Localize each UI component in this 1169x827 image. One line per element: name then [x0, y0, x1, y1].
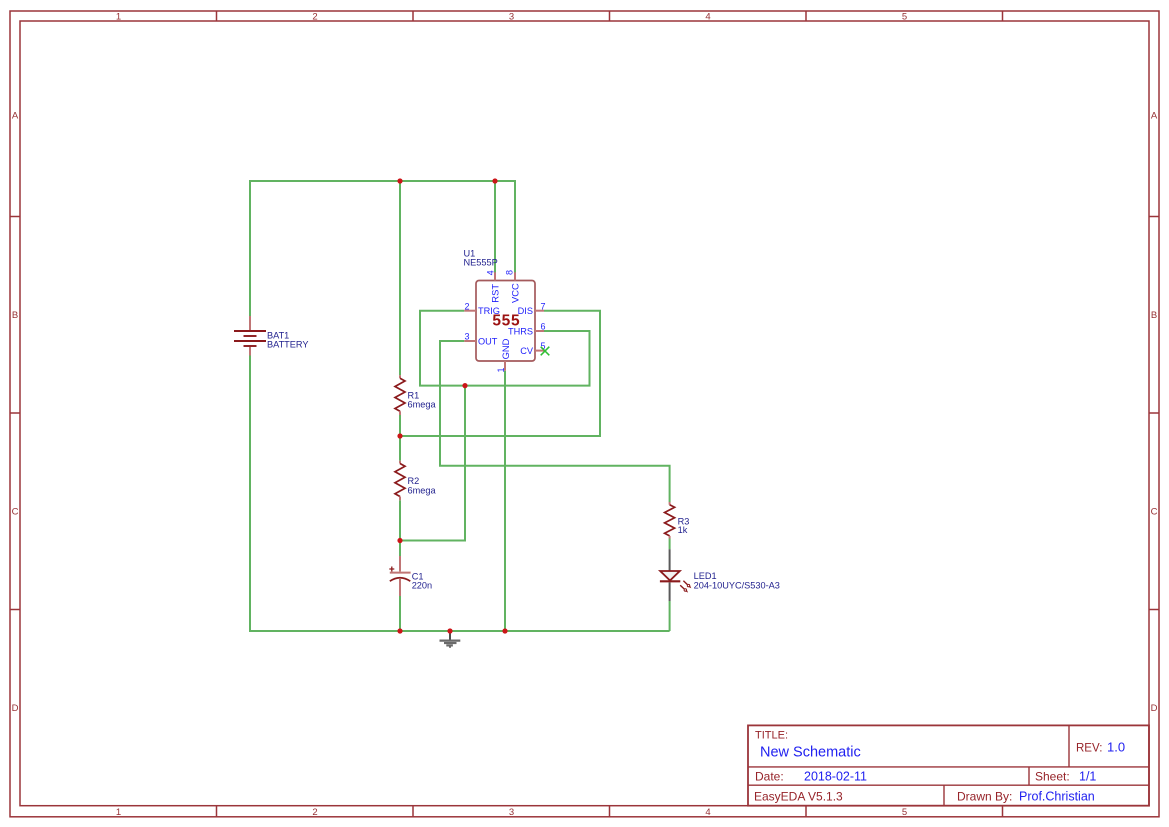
svg-text:4: 4: [485, 270, 495, 275]
wire C1 bottom to ground rail: [399, 596, 401, 631]
wire top rail to R1 top: [399, 181, 401, 375]
wire TRIG node drop to C1 node: [400, 386, 465, 541]
svg-text:D: D: [12, 703, 19, 714]
svg-text:Drawn By:: Drawn By:: [957, 790, 1012, 804]
U1 pin 1 GND: [496, 338, 511, 372]
svg-text:B: B: [12, 310, 18, 321]
svg-text:DIS: DIS: [518, 306, 533, 316]
wire VCC net: battery + up, top rail, down to pin 8: [250, 181, 515, 316]
svg-text:4: 4: [705, 807, 710, 818]
svg-text:1: 1: [116, 807, 121, 818]
svg-text:REV:: REV:: [1076, 743, 1102, 755]
svg-text:EasyEDA V5.1.3: EasyEDA V5.1.3: [754, 790, 843, 804]
svg-text:6mega: 6mega: [408, 485, 437, 495]
U1 pin 7 DIS: [518, 301, 546, 316]
svg-text:1.0: 1.0: [1107, 740, 1125, 755]
wire LED1 cathode to ground rail: [669, 601, 671, 631]
svg-text:Prof.Christian: Prof.Christian: [1019, 790, 1095, 804]
svg-text:2018-02-11: 2018-02-11: [804, 770, 867, 784]
svg-text:VCC: VCC: [509, 283, 520, 303]
U1 pin 6 THRS: [508, 322, 546, 337]
U1 pin 5 CV: [520, 341, 545, 356]
battery BAT1: [234, 316, 309, 356]
capacitor C1 220n polarized: [389, 556, 432, 596]
ground: [440, 631, 461, 648]
svg-text:6mega: 6mega: [408, 400, 437, 410]
svg-text:204-10UYC/S530-A3: 204-10UYC/S530-A3: [694, 581, 780, 591]
U1 pin 2 TRIG: [464, 301, 500, 316]
junction node TRIG-THRS tap: [462, 383, 467, 388]
junction node R2/C1: [397, 538, 402, 543]
U1 pin 3 OUT: [464, 332, 497, 347]
U1 pin 4 RST: [485, 270, 500, 302]
svg-text:2: 2: [464, 301, 469, 311]
wire C1 top lead: [399, 541, 401, 557]
svg-text:BATTERY: BATTERY: [267, 339, 309, 349]
svg-text:3: 3: [464, 332, 469, 342]
svg-text:B: B: [1151, 310, 1157, 321]
svg-text:1: 1: [116, 11, 121, 22]
svg-text:TRIG: TRIG: [478, 306, 500, 316]
wire TRIG-THRS net: pin 2 left, down, right, up to pin 6: [420, 311, 590, 386]
svg-text:Date:: Date:: [755, 770, 784, 784]
svg-text:C: C: [1151, 507, 1158, 518]
svg-text:220n: 220n: [412, 581, 432, 591]
wire R1 bottom to DIS node: [399, 415, 401, 436]
junction node R1/R2/DIS: [397, 433, 402, 438]
svg-text:5: 5: [902, 11, 907, 22]
svg-text:A: A: [12, 111, 19, 122]
svg-text:TITLE:: TITLE:: [755, 730, 788, 742]
U1 pin 8 VCC: [505, 270, 521, 303]
svg-text:CV: CV: [520, 346, 534, 356]
resistor R2 6mega: [395, 461, 436, 501]
wire ground rail: battery - down and bottom rail: [250, 356, 670, 632]
op-amp/timer U1 NE555P body: [464, 248, 536, 361]
svg-text:RST: RST: [489, 284, 500, 303]
svg-text:C: C: [12, 507, 19, 518]
wire RST pin 4 drop from top rail: [494, 181, 496, 273]
svg-text:3: 3: [509, 807, 514, 818]
svg-text:NE555P: NE555P: [464, 258, 498, 268]
svg-text:2: 2: [312, 807, 317, 818]
svg-text:OUT: OUT: [478, 336, 498, 346]
svg-text:THRS: THRS: [508, 326, 533, 336]
svg-text:LED1: LED1: [694, 571, 717, 581]
svg-text:8: 8: [505, 270, 515, 275]
svg-text:1k: 1k: [678, 525, 688, 535]
svg-text:GND: GND: [500, 338, 511, 359]
svg-text:7: 7: [540, 301, 545, 311]
svg-text:2: 2: [312, 11, 317, 22]
svg-text:6: 6: [540, 322, 545, 332]
junction node C1/ground rail: [397, 628, 402, 633]
junction node ground symbol tap: [447, 628, 452, 633]
resistor R3 1k: [665, 502, 690, 539]
svg-text:5: 5: [902, 807, 907, 818]
svg-text:New Schematic: New Schematic: [760, 745, 861, 761]
junction node GND pin / ground rail: [502, 628, 507, 633]
svg-text:3: 3: [509, 11, 514, 22]
LED1 204-10UYC/S530-A3: [660, 549, 780, 601]
svg-text:1: 1: [496, 367, 506, 372]
junction node VCC rail / RST: [492, 178, 497, 183]
wire DIS net: pin 7 right, down, left to R1/R2 node: [400, 311, 600, 436]
svg-text:Sheet:: Sheet:: [1035, 770, 1070, 784]
wire R2 bottom to C1 node: [399, 500, 401, 540]
svg-text:1/1: 1/1: [1079, 770, 1096, 784]
junction node VCC rail / R1: [397, 178, 402, 183]
svg-text:4: 4: [705, 11, 710, 22]
svg-text:D: D: [1151, 703, 1158, 714]
wire GND pin 1 drop to ground rail: [504, 371, 506, 631]
svg-text:A: A: [1151, 111, 1158, 122]
wire R2 top: [399, 436, 401, 461]
wire R3 bottom to LED1 anode: [669, 539, 671, 550]
resistor R1 6mega: [395, 375, 436, 415]
no-connect X on pin 5: [541, 347, 550, 356]
wire OUT net: pin 3 left, down, right to R3 top: [440, 341, 670, 502]
